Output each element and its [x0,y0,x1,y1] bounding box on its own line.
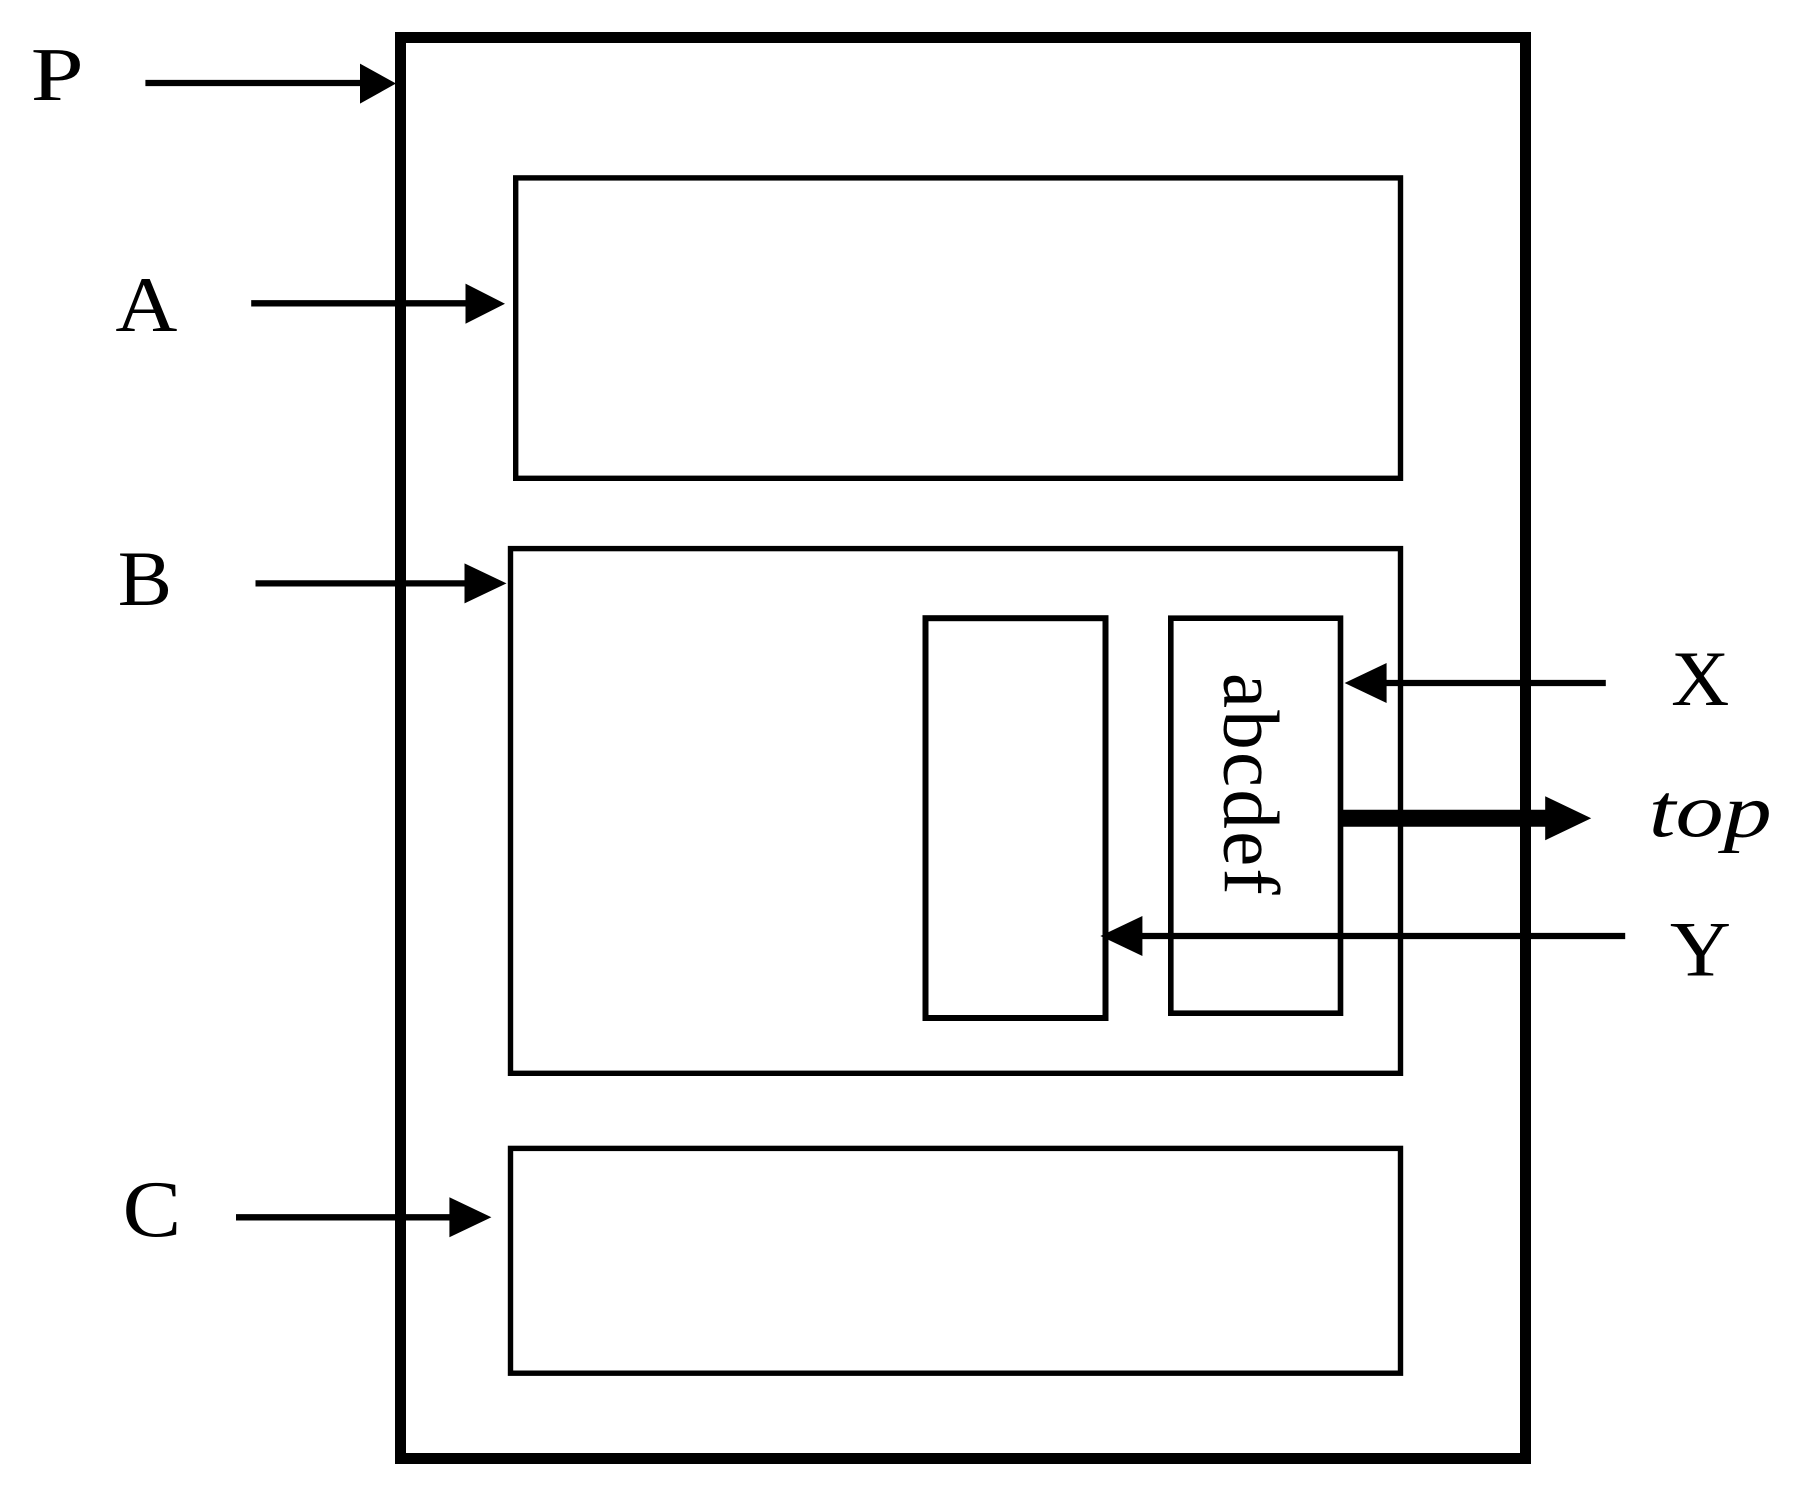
svg-text:B: B [118,535,172,622]
svg-text:P: P [31,33,84,117]
svg-text:X: X [1671,635,1729,722]
arrow A shaft [251,300,466,306]
arrow Y head [1100,916,1142,956]
rectangle A [516,178,1401,478]
svg-text:C: C [123,1166,182,1254]
rectangle B [511,549,1401,1074]
arrow X head [1345,663,1387,703]
arrow B head [465,563,507,603]
arrow C shaft [236,1214,451,1220]
arrow P shaft [145,80,362,86]
arrow C head [449,1197,491,1237]
arrow top head [1545,796,1591,840]
arrow A head [466,284,506,324]
outer box P [401,38,1526,1459]
svg-text:top: top [1649,769,1772,853]
rectangle C [511,1148,1401,1373]
inner empty slot box [926,618,1106,1018]
svg-text:Y: Y [1670,906,1731,993]
arrow top shaft (thick) [1339,810,1547,827]
arrow P head [360,64,396,104]
svg-text:A: A [115,261,177,348]
arrow Y shaft [1140,933,1625,939]
arrow B shaft [256,580,467,586]
arrow X shaft [1385,680,1606,686]
svg-text:abcdef: abcdef [1207,673,1294,895]
inner abcdef box [1171,618,1341,1013]
